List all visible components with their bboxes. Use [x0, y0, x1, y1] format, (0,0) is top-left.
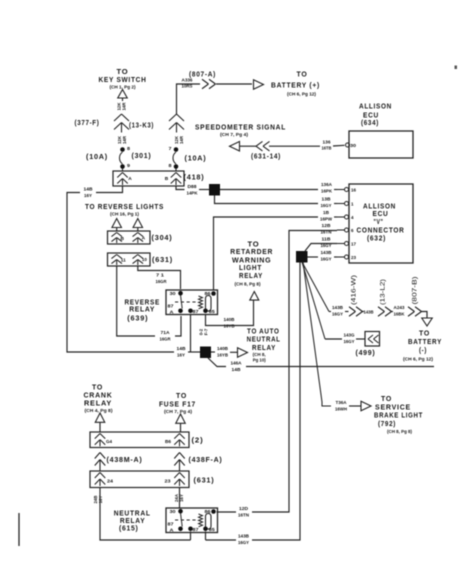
- svg-text:23: 23: [351, 255, 357, 260]
- svg-text:(CH 8, Pg 8): (CH 8, Pg 8): [387, 429, 413, 434]
- svg-text:A: A: [142, 236, 146, 241]
- wire: J2 to battery minus: [302, 262, 329, 312]
- svg-text:14B: 14B: [232, 367, 242, 372]
- svg-text:D88: D88: [188, 184, 198, 189]
- svg-text:16GR: 16GR: [160, 337, 172, 342]
- svg-text:(377-F): (377-F): [75, 118, 100, 127]
- svg-text:(792): (792): [378, 419, 396, 428]
- svg-text:RELAY: RELAY: [84, 399, 112, 408]
- svg-text:T36A: T36A: [336, 400, 348, 405]
- svg-text:136A: 136A: [321, 182, 333, 187]
- svg-text:140B: 140B: [224, 317, 236, 322]
- svg-text:14PK: 14PK: [187, 191, 199, 196]
- connector 632 pin 17: [345, 242, 349, 246]
- svg-text:(CH 1, Pg 2): (CH 1, Pg 2): [110, 85, 137, 90]
- wire J1 to pin 16: [220, 189, 318, 191]
- relay U1 (639) REVERSE RELAY pin 85: [203, 309, 208, 314]
- svg-text:(CH 8, Pg 8): (CH 8, Pg 8): [235, 282, 262, 287]
- relay U2 (615) NEUTRAL RELAY body: [166, 508, 218, 533]
- svg-text:TO: TO: [297, 70, 308, 79]
- svg-text:7: 7: [169, 146, 173, 151]
- connector box (2): [90, 432, 189, 448]
- svg-text:(438M-A): (438M-A): [107, 455, 143, 464]
- svg-text:ALLISON: ALLISON: [359, 102, 392, 111]
- wire: relay 87 down to J3: [190, 315, 192, 352]
- svg-text:6: 6: [351, 228, 354, 233]
- wire: block 418 right pin down to junction J1: [176, 186, 185, 190]
- svg-text:1: 1: [351, 202, 354, 207]
- svg-text:16BK: 16BK: [394, 312, 406, 317]
- connector 632 pin 6: [345, 228, 349, 232]
- ALLISON ECU (634) box: [349, 131, 413, 158]
- svg-text:30: 30: [170, 291, 177, 296]
- pin 30 of ECU 634: [346, 143, 350, 147]
- wire stubs breakers to block 418: [122, 169, 124, 172]
- svg-text:16PK: 16PK: [321, 189, 333, 194]
- svg-text:12D: 12D: [239, 506, 249, 511]
- svg-text:(CH 7, Pg 4): (CH 7, Pg 4): [164, 409, 193, 414]
- svg-text:16GY: 16GY: [344, 339, 355, 344]
- connector box (499): [365, 332, 380, 347]
- svg-text:8: 8: [169, 163, 173, 168]
- relay U1 (639) REVERSE RELAY pin 87: [188, 309, 193, 314]
- inline connector (377-F)/(13-K3): [114, 114, 122, 121]
- circuit breaker right (10A): [174, 147, 179, 152]
- relay U2 (615) NEUTRAL RELAY pin 30: [178, 509, 183, 514]
- off-page connector triangle (to key switch): [118, 90, 128, 99]
- svg-text:(807-B): (807-B): [412, 277, 419, 305]
- inline connector 438M-A: [95, 453, 100, 459]
- svg-text:16YB: 16YB: [217, 353, 229, 358]
- svg-text:16GY: 16GY: [321, 257, 332, 262]
- inline connector chevrons (807-A): [202, 79, 209, 84]
- svg-text:16GR: 16GR: [156, 279, 168, 284]
- svg-text:(438F-A): (438F-A): [189, 455, 223, 464]
- svg-text:16TN: 16TN: [321, 230, 332, 235]
- ALLISON ECU V CONNECTOR (632) box: [349, 184, 413, 263]
- connector box (631) bottom: [90, 471, 189, 488]
- svg-text:16TN: 16TN: [238, 513, 249, 518]
- svg-text:(304): (304): [152, 233, 173, 242]
- svg-text:86: 86: [205, 291, 212, 296]
- wire: battery+ feed up and right: [177, 84, 201, 114]
- connector 632 pin 1: [345, 202, 349, 206]
- wire: relay 85 to retarder triangle: [206, 300, 254, 326]
- svg-text:87: 87: [193, 527, 200, 532]
- svg-text:71A: 71A: [161, 330, 171, 335]
- svg-text:F-7: F-7: [204, 328, 209, 335]
- svg-text:85: 85: [209, 527, 216, 532]
- svg-text:B: B: [165, 176, 169, 181]
- svg-text:24: 24: [107, 479, 114, 484]
- svg-text:16GY: 16GY: [332, 312, 343, 317]
- svg-text:4: 4: [351, 215, 354, 220]
- junction J1 (black square): [209, 184, 220, 196]
- off-page triangle reverse lights left: [112, 219, 122, 228]
- svg-text:16GY: 16GY: [321, 243, 332, 248]
- circuit breaker left (10A): [120, 147, 125, 152]
- svg-text:10: 10: [142, 257, 148, 262]
- svg-text:RELAY: RELAY: [129, 305, 155, 314]
- svg-text:(631-14): (631-14): [251, 152, 281, 161]
- svg-text:143B: 143B: [321, 250, 333, 255]
- wire J1 down to pin 1: [215, 196, 319, 204]
- svg-text:87: 87: [168, 522, 175, 527]
- svg-text:143B: 143B: [364, 310, 375, 315]
- wire: J3 to auto neutral relay arrow: [211, 351, 215, 353]
- svg-text:Pg 10): Pg 10): [253, 358, 267, 363]
- fuse block (418) box: [113, 171, 184, 186]
- svg-text:B: B: [121, 236, 125, 241]
- relay U1 (639) REVERSE RELAY pin 30: [178, 291, 183, 296]
- svg-text:FUSE F17: FUSE F17: [159, 400, 196, 409]
- wire: box 631 pin 23 down to neutral relay 30: [179, 488, 181, 509]
- off-page arrow to service brake light: [361, 401, 371, 411]
- svg-text:143G: 143G: [344, 333, 355, 338]
- wire: pin 6 long run down to neutral relay pin 86: [252, 231, 337, 513]
- svg-text:14R: 14R: [122, 102, 127, 111]
- relay U1 (639) REVERSE RELAY body: [166, 290, 218, 315]
- junction J2 (black square): [296, 251, 308, 263]
- svg-text:16Y: 16Y: [177, 353, 185, 358]
- svg-text:16YB: 16YB: [224, 324, 236, 329]
- svg-text:RELAY: RELAY: [239, 271, 263, 280]
- wire: block 418 pin A to junction J3: [96, 186, 123, 193]
- relay U2 (615) NEUTRAL RELAY armature contact: [181, 513, 183, 527]
- svg-text:(632): (632): [367, 234, 386, 243]
- svg-text:(CH 6, Pg 12): (CH 6, Pg 12): [403, 357, 434, 362]
- svg-text:16WH: 16WH: [335, 407, 347, 412]
- svg-text:(13-L2): (13-L2): [380, 279, 387, 305]
- svg-text:16PW: 16PW: [320, 217, 333, 222]
- svg-text:(499): (499): [356, 348, 376, 357]
- connector chevrons 807-B: [408, 307, 415, 312]
- off-page triangle retarder relay: [250, 292, 259, 301]
- svg-text:30: 30: [170, 509, 177, 514]
- relay U1 (639) REVERSE RELAY armature contact: [181, 295, 183, 309]
- svg-text:(CH 6, Pg 12): (CH 6, Pg 12): [287, 92, 317, 97]
- svg-text:A: A: [170, 310, 174, 315]
- off-page triangle reverse lights right: [133, 219, 143, 228]
- svg-text:A336: A336: [182, 78, 194, 83]
- connector 632 pin 4: [345, 215, 349, 219]
- svg-text:143B: 143B: [332, 305, 344, 310]
- off-page arrow to battery +: [254, 80, 264, 90]
- svg-text:A243: A243: [394, 305, 406, 310]
- svg-text:87: 87: [193, 309, 200, 314]
- svg-text:14B: 14B: [84, 187, 94, 192]
- wire: J2 to connector 499: [302, 262, 325, 339]
- svg-text:143B: 143B: [238, 534, 250, 539]
- wire 146A: J3 to right edge: [208, 358, 226, 367]
- svg-text:16Y: 16Y: [84, 193, 92, 198]
- svg-text:14R: 14R: [179, 135, 184, 144]
- svg-text:(13-K3): (13-K3): [129, 121, 154, 130]
- relay U2 (615) NEUTRAL RELAY coil: [199, 514, 203, 527]
- svg-text:KEY SWITCH: KEY SWITCH: [99, 75, 147, 84]
- svg-text:11: 11: [121, 258, 127, 263]
- svg-text:140B: 140B: [217, 346, 229, 351]
- svg-text:(-): (-): [419, 346, 427, 355]
- wire 71A: pin 11 down to relay 87A: [117, 266, 155, 336]
- svg-text:86: 86: [205, 509, 212, 514]
- svg-text:17: 17: [351, 242, 357, 247]
- connector box (304): [108, 231, 151, 244]
- junction J3 (black square): [200, 347, 211, 359]
- connector chevrons 416-W: [349, 307, 356, 312]
- svg-text:12B: 12B: [322, 223, 332, 228]
- wire pin 23 to junction J2: [307, 256, 318, 258]
- svg-text:(CH 4, Pg 8): (CH 4, Pg 8): [85, 408, 114, 413]
- svg-text:G4: G4: [106, 439, 113, 444]
- wire: J2 to service brake light: [303, 262, 331, 406]
- wire: reverse relay coil to pin 4: [214, 217, 319, 290]
- connector 632 pin 16: [345, 188, 349, 192]
- inline connector chevrons (631-14): [256, 141, 263, 146]
- svg-text:(416-W): (416-W): [351, 275, 358, 305]
- svg-text:A: A: [170, 528, 174, 533]
- off-page arrow to auto neutral relay: [238, 348, 248, 358]
- svg-text:16TB: 16TB: [322, 146, 333, 151]
- svg-text:13B: 13B: [322, 197, 332, 202]
- svg-text:(631): (631): [194, 476, 215, 485]
- svg-text:(615): (615): [119, 524, 139, 533]
- wire pin 17 to junction J2: [305, 244, 337, 252]
- svg-text:85: 85: [209, 309, 216, 314]
- relay U1 (639) REVERSE RELAY pin 86: [211, 291, 216, 296]
- relay U2 (615) NEUTRAL RELAY pin 87: [188, 527, 193, 532]
- svg-text:(2): (2): [192, 436, 204, 445]
- svg-text:9: 9: [127, 163, 131, 168]
- wire: J2 down to neutral relay pin 85: [252, 262, 300, 540]
- svg-text:(634): (634): [361, 118, 379, 127]
- svg-text:14B: 14B: [177, 346, 187, 351]
- off-page arrow speedometer (left): [230, 141, 240, 151]
- inline connector (right column): [169, 114, 177, 121]
- svg-text:(631): (631): [152, 255, 173, 264]
- battery minus triangle: [422, 318, 433, 326]
- connector chevrons 13-L2: [378, 307, 385, 312]
- wire 7-1: pin 10 down to relay 30: [138, 266, 181, 289]
- svg-text:30: 30: [350, 143, 357, 148]
- svg-text:14R: 14R: [122, 135, 127, 144]
- svg-text:7 1: 7 1: [156, 273, 165, 278]
- svg-text:16GY: 16GY: [238, 540, 249, 545]
- svg-text:(CH 7, Pg 4): (CH 7, Pg 4): [220, 132, 249, 137]
- off-page triangle crank relay: [95, 413, 105, 422]
- top right speck: [455, 66, 458, 70]
- relay U2 (615) NEUTRAL RELAY pin 86: [211, 509, 216, 514]
- inline connector 438F-A: [174, 453, 179, 459]
- svg-text:(CH 16, Pg 1): (CH 16, Pg 1): [110, 212, 140, 217]
- svg-text:23: 23: [165, 479, 172, 484]
- svg-text:(10A): (10A): [86, 152, 108, 161]
- svg-text:TO REVERSE LIGHTS: TO REVERSE LIGHTS: [85, 202, 164, 211]
- svg-text:B6: B6: [165, 439, 172, 444]
- connector 632 pin 23: [345, 255, 349, 259]
- svg-text:16: 16: [351, 188, 357, 193]
- svg-text:(10A): (10A): [185, 154, 207, 163]
- wire speedometer to ECU pin 30: [240, 145, 257, 147]
- svg-text:(639): (639): [127, 313, 148, 322]
- svg-text:A: A: [128, 176, 132, 181]
- relay U1 (639) REVERSE RELAY coil: [199, 296, 203, 309]
- svg-text:146A: 146A: [231, 361, 243, 366]
- relay U2 (615) NEUTRAL RELAY pin 85: [203, 527, 208, 532]
- svg-text:11B: 11B: [322, 237, 332, 242]
- svg-text:16GY: 16GY: [321, 203, 332, 208]
- svg-text:1B: 1B: [323, 210, 330, 215]
- svg-text:87: 87: [168, 304, 175, 309]
- wire elbow to ground triangle: [422, 312, 428, 319]
- connector box (631): [108, 253, 151, 266]
- svg-text:(418): (418): [184, 173, 205, 182]
- off-page triangle fuse F17: [176, 414, 186, 423]
- svg-text:(301): (301): [132, 151, 152, 160]
- svg-text:RELAY: RELAY: [252, 343, 276, 352]
- svg-text:BATTERY (+): BATTERY (+): [271, 81, 320, 90]
- svg-text:8: 8: [127, 146, 131, 151]
- svg-text:10RS: 10RS: [182, 84, 193, 89]
- wire: box 631 pin 24 down and right to neutral relay 87: [100, 488, 191, 541]
- svg-text:(807-A): (807-A): [189, 70, 216, 79]
- svg-text:(CH 8,: (CH 8,: [253, 352, 266, 357]
- svg-text:136: 136: [323, 140, 332, 145]
- left margin tick: [18, 513, 20, 546]
- svg-text:SPEEDOMETER SIGNAL: SPEEDOMETER SIGNAL: [195, 123, 286, 132]
